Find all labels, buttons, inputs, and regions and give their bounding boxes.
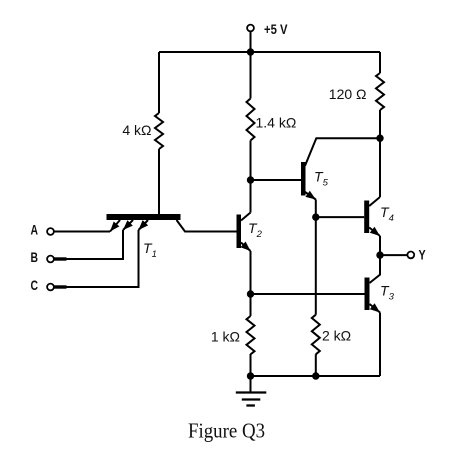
svg-text:C: C [31,278,39,293]
svg-text:2 kΩ: 2 kΩ [322,328,351,344]
svg-text:B: B [31,250,39,265]
svg-text:A: A [31,223,39,238]
svg-text:T1: T1 [143,240,157,260]
svg-text:+5 V: +5 V [264,22,288,37]
svg-text:Y: Y [419,248,426,263]
svg-text:T2: T2 [248,220,263,240]
svg-text:4 kΩ: 4 kΩ [122,122,151,138]
svg-text:T4: T4 [380,204,394,224]
svg-text:120 Ω: 120 Ω [329,86,367,102]
svg-text:1 kΩ: 1 kΩ [211,329,240,345]
svg-text:1.4 kΩ: 1.4 kΩ [256,115,297,131]
svg-text:T5: T5 [314,169,329,189]
svg-text:T3: T3 [380,283,395,303]
svg-text:Figure Q3: Figure Q3 [188,419,265,443]
